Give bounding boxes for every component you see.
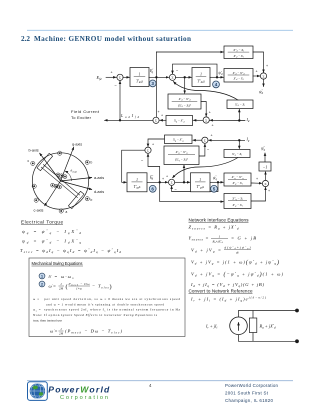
- wire sum2 to integrator Tdo'': [176, 76, 192, 78]
- svg-text:+: +: [166, 175, 168, 179]
- svg-text:): ): [110, 283, 112, 290]
- svg-text:Convert to Network Reference: Convert to Network Reference: [189, 289, 253, 294]
- state circle 2: [39, 281, 45, 287]
- svg-text:Σ: Σ: [263, 74, 265, 78]
- b-axis arrow: [40, 153, 61, 181]
- node LadIfd junction: [119, 119, 121, 121]
- block Xq-X'q: [165, 135, 193, 144]
- svg-text:and ω = 1 would mean it's spin: and ω = 1 would mean it's spinning at do…: [46, 302, 164, 306]
- wire -1 up to psi''q: [264, 153, 266, 162]
- winding slot top: [31, 151, 90, 213]
- theta shaft arc: [65, 171, 72, 181]
- svg-text:+: +: [266, 64, 268, 68]
- node psi_kd junction: [216, 76, 218, 78]
- winding slot bottom right: [85, 197, 89, 201]
- wire sumQ2 to integrator T''qo: [175, 181, 190, 183]
- svg-text:T″dos: T″dos: [197, 80, 205, 85]
- wire E'd up into sumQTL bottom: [148, 154, 160, 183]
- summing junction sum1: [117, 74, 123, 80]
- rotor body: [31, 153, 90, 209]
- svg-text:q-axis: q-axis: [72, 143, 82, 147]
- impedance box Ra+jX''d: [249, 318, 256, 333]
- state circle 4: [213, 81, 220, 88]
- summing junction sumC: [260, 73, 266, 79]
- svg-text:+: +: [158, 110, 160, 114]
- svg-text:−1: −1: [263, 165, 268, 170]
- summing junction sumA: [153, 117, 159, 123]
- current source: [230, 317, 248, 335]
- wire sumQTR to box Xq-X'q: [193, 139, 202, 141]
- state circle 3: [149, 80, 156, 87]
- integrator block 1/(T''qo s): [191, 173, 211, 192]
- winding slot bottom left: [34, 198, 38, 202]
- a-axis arrow: [61, 178, 93, 182]
- wire B1 to sumC: [253, 52, 264, 73]
- svg-text:Σ: Σ: [265, 182, 267, 186]
- svg-text:Σ: Σ: [119, 76, 121, 80]
- svg-text:To Exciter: To Exciter: [71, 115, 92, 120]
- wire psi_kd to box B2: [210, 76, 224, 78]
- svg-text:Machine: GENROU model without: Machine: GENROU model without saturation: [34, 35, 191, 43]
- wire top rail: [239, 311, 298, 318]
- node terminal top: [295, 309, 299, 313]
- svg-text:Champaign, IL 61820: Champaign, IL 61820: [225, 398, 274, 403]
- block Cq (X'q-X''q)/(X'q-Xl)^2: [164, 146, 199, 165]
- svg-text:3: 3: [151, 81, 154, 86]
- svg-text:+: +: [211, 134, 213, 138]
- wire box E to sumA: [160, 119, 166, 121]
- block B1q (X'q-X''q)/(X'q-Xl): [224, 173, 251, 186]
- svg-text:= G + jB: = G + jB: [231, 236, 256, 241]
- wire junction up to box Cq: [183, 165, 185, 182]
- svg-text:5: 5: [213, 187, 216, 192]
- integrator block 1/(T'qo s): [127, 173, 147, 192]
- svg-text:Mechanical Swing Equations: Mechanical Swing Equations: [32, 261, 83, 266]
- summing junction sumB: [203, 117, 209, 123]
- field winding cluster lower: [51, 183, 55, 187]
- node Iq junction: [238, 139, 240, 141]
- svg-text:PowerWorld Corporation: PowerWorld Corporation: [225, 383, 279, 388]
- node psi_kq junction: [217, 181, 219, 183]
- svg-text:c-axis: c-axis: [34, 209, 44, 213]
- svg-text:Efd: Efd: [96, 75, 102, 81]
- footer rule: [27, 380, 293, 382]
- winding slot upper left: [31, 161, 35, 165]
- svg-text:X′q − Xl: X′q − Xl: [232, 203, 243, 208]
- wire B2 to sumC: [253, 75, 260, 77]
- wire curve box D to sum2 bottom: [173, 82, 238, 101]
- svg-text:1: 1: [136, 178, 138, 182]
- svg-text:+: +: [111, 71, 113, 75]
- state circle 6: [149, 185, 156, 192]
- block Dq X'q-Xl: [224, 150, 250, 158]
- svg-text:+: +: [161, 114, 163, 118]
- svg-text:d-axis: d-axis: [94, 190, 104, 194]
- svg-text:X′d − Xl: X′d − Xl: [234, 103, 245, 108]
- svg-text:1+ω: 1+ω: [76, 287, 83, 291]
- svg-text:+: +: [212, 124, 214, 128]
- svg-text:ωs = synchronous speed 2πfs w: ωs = synchronous speed 2πfs where fs is …: [33, 308, 181, 313]
- wire E'q to sum2: [149, 76, 169, 78]
- svg-text:X′d − X″d: X′d − X″d: [178, 97, 192, 102]
- svg-text:Σ: Σ: [171, 181, 173, 185]
- svg-text:2.2: 2.2: [21, 35, 30, 43]
- svg-text:(X′d − Xl)2: (X′d − Xl)2: [178, 104, 192, 109]
- svg-text:2001 South First St: 2001 South First St: [225, 391, 269, 396]
- svg-text:X′q − X″q: X′q − X″q: [175, 150, 189, 155]
- svg-text:1: 1: [200, 73, 202, 77]
- svg-text:1: 1: [199, 178, 201, 182]
- wire B1q to sumQ3: [251, 182, 262, 184]
- svg-text:1: 1: [219, 235, 221, 239]
- state circle 5: [211, 185, 218, 192]
- svg-text:Σ: Σ: [204, 139, 206, 143]
- svg-text:Network Interface Equations: Network Interface Equations: [189, 218, 250, 223]
- svg-text:+: +: [162, 177, 164, 181]
- wire Iq line into sumQTR: [209, 139, 246, 141]
- svg-text:Note: If option Ignore Speed E: Note: If option Ignore Speed Effects in …: [33, 313, 158, 317]
- note small text: [33, 297, 181, 323]
- logo globe: [30, 383, 45, 398]
- svg-text:+: +: [256, 70, 258, 74]
- svg-text:+: +: [256, 177, 258, 181]
- q-axis arrow: [61, 147, 74, 181]
- svg-text:1: 1: [139, 73, 141, 77]
- svg-text:X′q − Xl: X′q − Xl: [232, 181, 243, 186]
- wire junction down to box C: [184, 77, 186, 93]
- wire junction up to sum1 bottom: [119, 81, 121, 120]
- svg-text:+: +: [209, 111, 211, 115]
- svg-text:a: a: [66, 210, 68, 214]
- svg-text:2H: 2H: [59, 332, 64, 336]
- svg-text:Corporation: Corporation: [60, 395, 108, 401]
- state circle 1: [39, 273, 45, 279]
- svg-text:ω̇ =: ω̇ =: [49, 284, 57, 289]
- svg-text:Σ: Σ: [155, 119, 157, 123]
- block B2q (X''q-Xl)/(X'q-Xl): [224, 194, 251, 209]
- winding slot bottom: [59, 209, 63, 213]
- mechanical swing equations box: [29, 258, 185, 337]
- wire box Cq to sumQTR bottom: [199, 144, 205, 156]
- wire E'q vertical to top rail and down to sumA: [155, 52, 157, 117]
- svg-text:dt: dt: [236, 250, 239, 254]
- block B1 (X''d-Xl)/(X'd-Xl): [224, 46, 253, 59]
- node sum2 output junction: [184, 76, 186, 78]
- wire curve box Dq to sumQ2 top: [172, 158, 238, 179]
- svg-text:4: 4: [215, 82, 218, 87]
- wire Iq down to box Dq: [238, 140, 240, 149]
- winding slot upper right b: [85, 160, 89, 164]
- wire sum1 to integrator Tdo': [123, 76, 130, 78]
- svg-text:X″q − Xl: X″q − Xl: [231, 196, 243, 201]
- node Id junction: [238, 119, 240, 121]
- svg-text:ω̇ =: ω̇ =: [50, 329, 58, 334]
- integrator block 1/(T''do s): [192, 68, 210, 87]
- block D X'd-Xl: [227, 100, 253, 109]
- winding slot left: [32, 184, 36, 188]
- header rule: [27, 29, 293, 31]
- svg-text:+: +: [268, 189, 270, 193]
- wire box Xq-X'q to sumQTL top: [148, 139, 165, 147]
- wire B2q to sumQ3 bottom: [251, 187, 266, 201]
- svg-text:X′q − X″q: X′q − X″q: [231, 175, 245, 180]
- svg-text:Σ: Σ: [172, 76, 174, 80]
- svg-text:b: b: [91, 198, 93, 202]
- wire sumA to exciter: [105, 119, 153, 121]
- wire sumB to box E: [193, 119, 203, 121]
- wire left rail sumQTL to integrator T'qo: [122, 150, 145, 182]
- integrator block 1/(T'do s): [130, 68, 149, 87]
- wire Id up to box D: [238, 109, 240, 120]
- wire feedback psi_kq to sumQ2 bottom: [172, 182, 218, 191]
- wire sumQ3 up to -1 block: [265, 172, 267, 181]
- wire Id line into sumB: [210, 119, 245, 121]
- svg-text:b: b: [91, 161, 93, 165]
- summing junction sumQ2: [169, 179, 175, 185]
- field winding cluster upper: [56, 173, 60, 177]
- wire box bottom branch: [252, 333, 254, 342]
- wire bottom rail: [239, 335, 298, 342]
- svg-text:Field Current: Field Current: [71, 109, 100, 114]
- summing junction sum2: [169, 74, 175, 80]
- svg-text:b-axis: b-axis: [29, 149, 39, 153]
- wire feedback psi_kd to sum2 top: [173, 64, 218, 77]
- block E Xd-X'd: [166, 116, 193, 126]
- summing junction sumQTL: [145, 147, 151, 153]
- svg-text:X′d − X″d: X′d − X″d: [232, 71, 246, 76]
- svg-text:+: +: [152, 143, 154, 147]
- wire E'd down to bottom rail to box B2q: [160, 182, 224, 201]
- wire psi_kq to box B1q: [210, 181, 224, 183]
- wire box top branch: [252, 311, 254, 319]
- wire top rail to box B1: [156, 51, 223, 53]
- node terminal bottom: [295, 339, 299, 343]
- svg-text:a-axis: a-axis: [94, 176, 104, 180]
- wire sumC output psi''d: [263, 79, 265, 86]
- svg-text:X′d − Xl: X′d − Xl: [233, 54, 244, 59]
- summing junction sumQ3: [262, 180, 268, 186]
- block C (X'd-X''d)/(X'd-Xl)^2: [168, 94, 201, 109]
- node E'q junction: [155, 76, 157, 78]
- block B2 (X'd-X''d)/(X'd-Xl): [224, 69, 253, 83]
- svg-text:X′d − Xl: X′d − Xl: [233, 77, 244, 82]
- svg-text:2H: 2H: [59, 287, 64, 291]
- wire E'd to sumQ2: [147, 181, 168, 183]
- node E'd junction: [159, 181, 161, 183]
- svg-text:X′q − Xl: X′q − Xl: [231, 152, 242, 157]
- wire Efd to sum1: [106, 76, 116, 78]
- svg-text:(X′q − Xl)2: (X′q − Xl)2: [175, 157, 189, 162]
- svg-text:(: (: [66, 283, 68, 290]
- d-axis arrow: [61, 181, 93, 190]
- svg-text:Σ: Σ: [205, 118, 207, 122]
- svg-text:6: 6: [151, 187, 154, 192]
- c-axis arrow: [45, 181, 61, 206]
- svg-text:Electrical Torque: Electrical Torque: [21, 220, 63, 225]
- svg-text:T′dos: T′dos: [136, 80, 143, 85]
- logo frame: [28, 382, 48, 401]
- wire box C to sumB: [201, 102, 206, 117]
- svg-text:Σ: Σ: [147, 149, 149, 153]
- machine stator circle: [32, 153, 88, 209]
- node sumQ2 output junction: [183, 181, 185, 183]
- block minus one: [259, 162, 271, 171]
- summing junction sumQTR: [202, 137, 208, 143]
